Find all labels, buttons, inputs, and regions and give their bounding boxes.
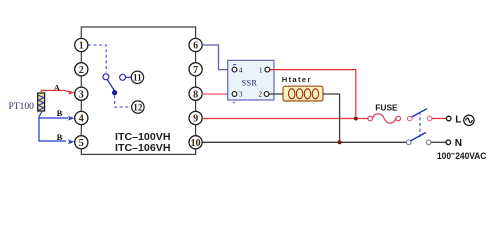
pin 8 <box>189 87 202 100</box>
controller body U1 <box>81 27 195 154</box>
pin 1 <box>75 38 88 51</box>
pin 2 <box>75 63 88 76</box>
svg-text:12: 12 <box>133 102 143 112</box>
svg-text:7: 7 <box>193 65 198 76</box>
wire pin 10 to N switch (dark) <box>202 141 406 143</box>
svg-text:6: 6 <box>193 41 198 52</box>
label ITC-100VH / ITC-106VH <box>115 132 171 154</box>
svg-text:FUSE: FUSE <box>375 103 398 113</box>
wire pin 8 to SSR pin 3 (pink red) <box>202 93 232 95</box>
junction dot SSR/L <box>354 117 358 121</box>
svg-text:9: 9 <box>193 114 198 125</box>
wire B2 (blue) sensor to pin 5 <box>39 118 66 141</box>
SSR pin 4 <box>232 65 243 75</box>
svg-text:A: A <box>54 83 61 93</box>
svg-text:5: 5 <box>79 138 84 149</box>
wire pin 6 to SSR pin 4 (slate blue) <box>202 45 232 70</box>
sensor PT100 body <box>38 93 45 111</box>
pin 9 <box>189 111 202 124</box>
relay contact: common dot <box>112 90 117 95</box>
SSR pin 2 <box>259 91 270 99</box>
fuse F1 <box>368 114 401 123</box>
AC source symbol <box>464 115 474 125</box>
pin 11 <box>131 71 143 83</box>
pin 10 <box>189 136 202 149</box>
wire A (red) sensor to pin 3 <box>41 90 70 93</box>
relay contact: lever <box>107 80 114 91</box>
svg-text:Htater: Htater <box>282 75 311 84</box>
heater coil <box>289 89 319 99</box>
svg-text:ITC–100VH: ITC–100VH <box>115 132 171 143</box>
relay contact: NO circle <box>120 74 126 80</box>
svg-text:N: N <box>455 138 462 149</box>
svg-text:8: 8 <box>193 89 198 100</box>
heater element body <box>283 86 323 101</box>
wire heater to N line (dark) <box>323 94 340 141</box>
wire SSR pin 2 to heater <box>269 93 283 95</box>
pin 7 <box>189 63 202 76</box>
wire: NO contact to pin 11 <box>126 76 131 78</box>
svg-text:11: 11 <box>133 73 142 83</box>
svg-text:1: 1 <box>79 41 84 52</box>
arrow A <box>68 90 75 95</box>
pin 4 <box>75 111 88 124</box>
arrow B1 <box>68 116 75 121</box>
wire: dashed relay feed from pin 1 <box>88 45 106 73</box>
svg-text:ITC–106VH: ITC–106VH <box>115 143 171 154</box>
pin 5 <box>75 136 88 149</box>
svg-text:SSR: SSR <box>242 79 258 88</box>
svg-text:2: 2 <box>79 65 84 76</box>
SSR pin 3 <box>232 91 243 107</box>
wire SSR pin 1 to L line (red) <box>270 70 356 116</box>
wire: dashed from common to pin 12 <box>115 95 132 107</box>
svg-text:L: L <box>455 114 461 125</box>
wire switch to L terminal (red) <box>432 118 446 120</box>
SSR box U2 <box>228 60 274 100</box>
pin 3 <box>75 87 88 100</box>
svg-text:+: + <box>232 99 236 107</box>
svg-text:3: 3 <box>239 91 243 99</box>
svg-text:4: 4 <box>79 114 84 125</box>
svg-text:B: B <box>57 132 63 142</box>
svg-text:2: 2 <box>259 91 263 99</box>
pin 12 <box>132 101 144 113</box>
relay contact: pole circle <box>103 74 109 80</box>
arrow B2 <box>68 140 75 145</box>
wire switch to N terminal (dark) <box>431 141 446 143</box>
svg-text:1: 1 <box>259 66 263 74</box>
wire B1 (blue) sensor to pin 4 <box>39 111 68 118</box>
svg-text:10: 10 <box>191 138 201 149</box>
switch S1 (L pole) <box>407 109 432 121</box>
svg-text:3: 3 <box>79 89 84 100</box>
wire pin 9 to fuse (red) <box>202 118 368 120</box>
terminal N <box>446 140 451 145</box>
terminal L <box>446 116 451 121</box>
pin 6 <box>189 38 202 51</box>
junction dot heater/N <box>338 140 342 144</box>
switch mechanical link (dashed) <box>419 112 421 139</box>
switch S1 (N pole) <box>406 133 431 145</box>
svg-text:PT100: PT100 <box>9 102 35 112</box>
svg-text:100~240VAC: 100~240VAC <box>437 149 487 161</box>
svg-text:4: 4 <box>239 66 243 74</box>
svg-text:B: B <box>57 108 63 118</box>
SSR pin 1 <box>259 66 270 74</box>
